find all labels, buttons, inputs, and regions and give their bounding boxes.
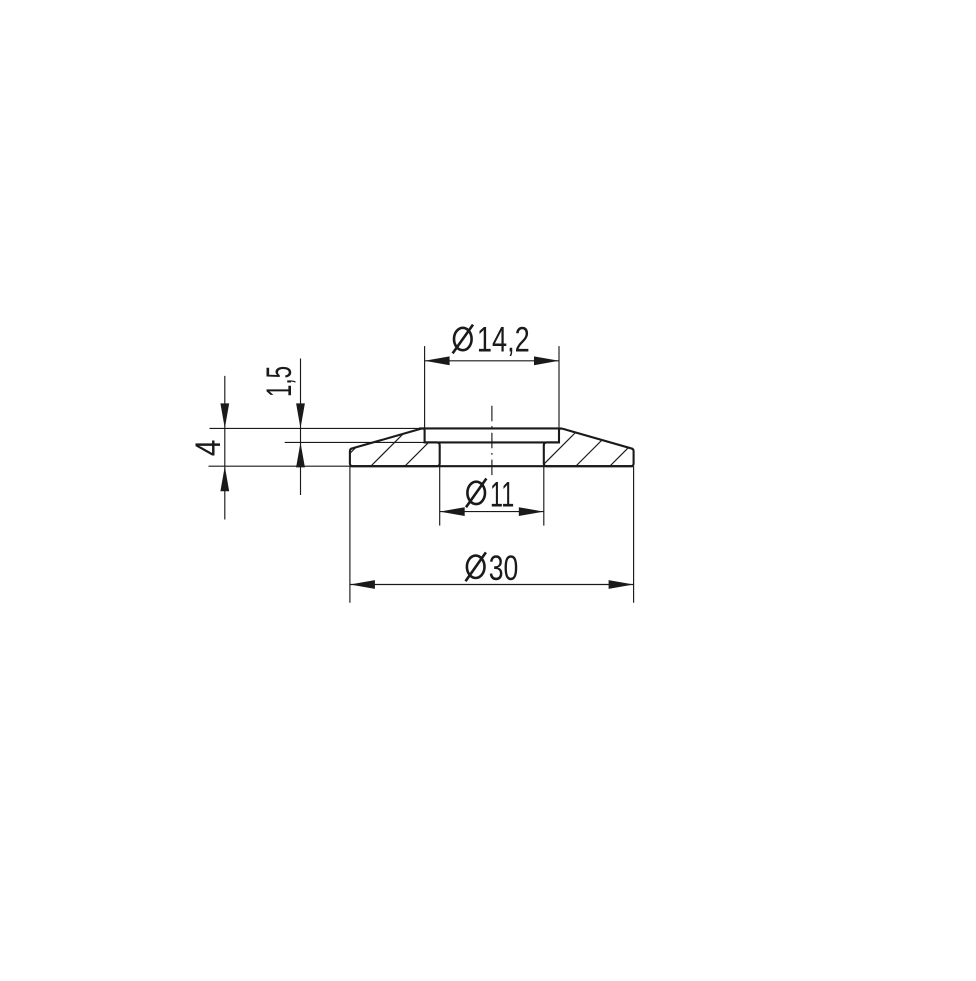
visible background edge: counterbore floor	[425, 441, 559, 443]
svg-text:11: 11	[490, 475, 514, 515]
svg-text:1,5: 1,5	[259, 366, 299, 397]
extension line D30 right	[633, 466, 635, 603]
extension line counterbore floor (left, for dim 1,5)	[285, 441, 425, 443]
arrowhead D14.2 right	[534, 356, 559, 365]
arrowhead 1,5 down	[296, 403, 305, 428]
washer section outline: right cut piece	[544, 428, 634, 466]
visible background edge: counterbore top rim	[419, 427, 559, 429]
extension line D11 left	[439, 466, 441, 525]
svg-text:30: 30	[489, 548, 519, 588]
label D14.2 : diameter symbol	[453, 325, 473, 354]
dimension line 1,5	[300, 359, 302, 496]
dimension line D30	[350, 584, 634, 586]
arrowhead D11 right	[519, 507, 544, 516]
arrowhead 4 up	[220, 466, 229, 491]
hatch tick in left outer corner	[350, 448, 355, 453]
arrowhead D14.2 left	[425, 356, 450, 365]
extension line bottom surface (left, for dim 4)	[209, 465, 350, 467]
svg-text:4: 4	[188, 440, 228, 457]
extension line D14.2 left	[424, 346, 426, 428]
arrowhead D11 left	[440, 507, 465, 516]
hatch lines right piece	[532, 421, 655, 476]
extension line D14.2 right	[558, 346, 560, 430]
bottom edge of washer	[350, 465, 634, 467]
extension line D30 left	[349, 466, 351, 603]
extension line D11 right	[543, 466, 545, 525]
dimension line D11	[440, 511, 544, 513]
label D30 : diameter symbol	[466, 552, 486, 581]
label D11 : diameter symbol	[466, 479, 486, 508]
svg-text:14,2: 14,2	[477, 319, 530, 359]
hatch lines left piece	[361, 421, 484, 476]
arrowhead 4 down	[220, 403, 229, 428]
arrowhead D30 right	[609, 580, 634, 589]
washer section outline: left cut piece	[350, 428, 440, 466]
arrowhead D30 left	[350, 580, 375, 589]
centerline (vertical dash-dot axis)	[491, 406, 493, 479]
extension line top surface (left, for dims 1,5 and 4)	[210, 427, 421, 429]
dimension line 4	[224, 376, 226, 520]
arrowhead 1,5 up	[296, 442, 305, 467]
dimension line D14.2	[425, 360, 559, 362]
